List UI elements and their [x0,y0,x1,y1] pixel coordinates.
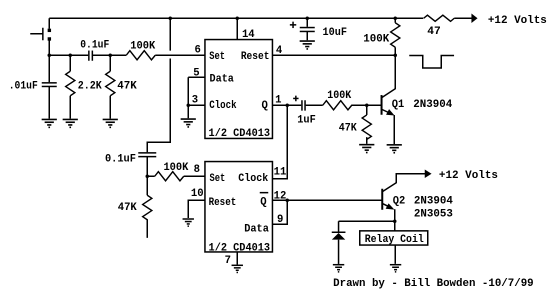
svg-text:0.1uF: 0.1uF [80,40,109,52]
svg-text:5: 5 [193,67,199,79]
svg-text:Set: Set [209,51,225,63]
svg-text:Reset: Reset [241,51,270,63]
svg-text:2N3904: 2N3904 [413,99,453,111]
svg-text:.01uF: .01uF [9,80,38,92]
svg-text:10uF: 10uF [323,27,348,39]
svg-text:+12 Volts: +12 Volts [439,170,498,182]
svg-text:100K: 100K [130,40,156,52]
svg-text:Data: Data [244,223,269,235]
svg-text:2N3053: 2N3053 [414,208,453,220]
svg-text:47K: 47K [118,202,138,214]
svg-text:1uF: 1uF [297,114,316,126]
svg-text:14: 14 [242,29,255,41]
svg-text:Q: Q [260,196,267,208]
svg-text:4: 4 [276,45,283,57]
svg-text:Relay Coil: Relay Coil [365,234,424,246]
svg-text:1/2 CD4013: 1/2 CD4013 [209,243,270,255]
svg-text:Set: Set [209,173,225,185]
svg-text:0.1uF: 0.1uF [105,153,136,165]
svg-text:Q1: Q1 [392,99,405,111]
svg-text:8: 8 [194,164,200,176]
svg-text:10: 10 [191,188,204,200]
svg-text:47K: 47K [339,123,358,135]
svg-text:6: 6 [194,44,200,56]
svg-text:Clock: Clock [238,173,269,185]
svg-text:100K: 100K [163,162,189,174]
svg-text:2N3904: 2N3904 [414,195,454,207]
svg-text:Reset: Reset [209,197,237,209]
svg-text:11: 11 [274,166,287,178]
svg-text:Q: Q [262,100,269,112]
svg-text:100K: 100K [363,34,390,46]
svg-text:100K: 100K [327,90,352,102]
svg-text:1/2 CD4013: 1/2 CD4013 [209,128,270,140]
svg-text:Drawn by - Bill Bowden -10/7/9: Drawn by - Bill Bowden -10/7/99 [333,278,534,290]
svg-text:7: 7 [225,255,231,267]
svg-text:47: 47 [427,26,441,38]
svg-text:12: 12 [274,190,287,202]
svg-text:Q2: Q2 [393,195,406,207]
svg-text:Data: Data [210,74,235,86]
svg-text:47K: 47K [117,80,137,92]
svg-text:3: 3 [192,95,198,107]
svg-text:9: 9 [277,214,283,226]
svg-text:2.2K: 2.2K [78,81,103,93]
svg-text:1: 1 [275,95,281,107]
svg-text:Clock: Clock [209,100,237,112]
svg-text:+12 Volts: +12 Volts [488,15,547,27]
